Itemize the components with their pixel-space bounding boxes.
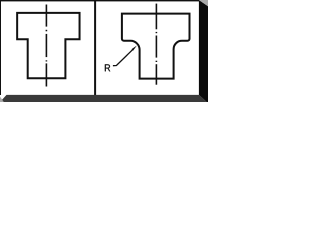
shadow band bottom (0, 95, 207, 102)
right view T outline with fillets (122, 14, 190, 79)
label R (105, 64, 110, 71)
shadow corner light triangle bottom-left (0, 97, 4, 103)
leader line from R to fillet (113, 49, 134, 66)
panel divider (94, 0, 96, 95)
frame top border (0, 0, 199, 1)
shadow band right (199, 0, 208, 102)
right view vertical centerline (dash-dot) (155, 4, 157, 85)
frame left border (0, 0, 1, 95)
shadow corner gray triangle top-right (199, 0, 208, 6)
left view T outline (17, 13, 79, 78)
leader arrowhead (132, 46, 137, 51)
left view vertical centerline (dash-dot) (45, 5, 47, 87)
